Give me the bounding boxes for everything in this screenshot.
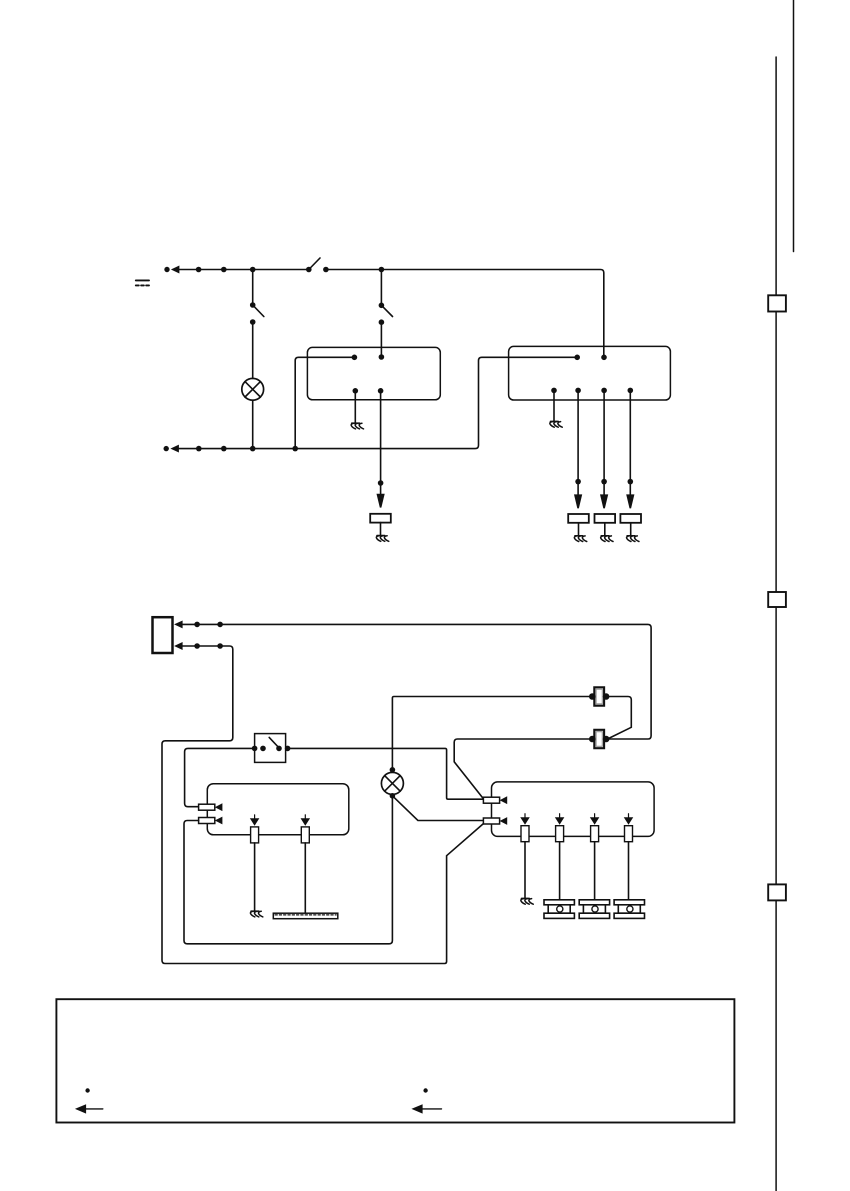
- pin dot A1: [352, 355, 358, 361]
- section mark 2: [768, 592, 786, 607]
- wire top bus left: [199, 269, 309, 271]
- pin dot B5: [601, 388, 607, 394]
- wire A4 down: [380, 391, 382, 483]
- legend symbol 1 arrow: [77, 1105, 103, 1112]
- connector plug B4: [568, 514, 589, 523]
- ground below D-R1: [521, 842, 533, 905]
- pin dot B2: [601, 355, 607, 361]
- module D box: [492, 782, 655, 837]
- connector plug B6: [620, 514, 641, 523]
- wire lamp bottom to module D connector 2: [392, 796, 483, 821]
- node dot: [217, 643, 223, 649]
- arrow down A4: [378, 483, 384, 508]
- node dot: [221, 267, 227, 273]
- arrow down B5: [601, 482, 607, 509]
- node dot: [378, 480, 384, 486]
- pin dot B1: [574, 355, 580, 361]
- pin dot B6: [628, 388, 634, 394]
- pin dot A2: [379, 354, 385, 360]
- ground below C-R1: [250, 843, 262, 917]
- pin dot A4: [378, 388, 384, 394]
- switch S2 lamp branch: [250, 270, 264, 325]
- wire B5 down: [603, 390, 605, 481]
- actuator 1: [544, 900, 574, 919]
- legend symbol 1 dot: [85, 1088, 89, 1092]
- page rule right top: [793, 0, 795, 252]
- wire switch right to module D connector: [288, 748, 484, 799]
- wire fuse F2 left to module D connector 1: [454, 739, 592, 799]
- node dot top bus col2: [379, 267, 385, 273]
- actuator 2: [579, 900, 609, 919]
- ground below plug B5: [601, 523, 613, 542]
- wire into module A: [380, 322, 382, 357]
- module C connector pin 1: [199, 804, 222, 810]
- relay switch box: [255, 734, 286, 763]
- node dot junction lamp column: [250, 267, 256, 273]
- wire B4 down: [577, 390, 579, 481]
- wire C-R2 to heater element: [304, 843, 306, 913]
- indicator lamp L2: [381, 772, 403, 794]
- node dot: [575, 479, 581, 485]
- ground B3: [550, 390, 562, 427]
- pin dot B4: [575, 388, 581, 394]
- wire D-R4 to actuator 3: [628, 842, 630, 900]
- module D connector pin 1: [483, 797, 506, 803]
- wire to lamp: [252, 322, 254, 378]
- module C box: [207, 784, 348, 835]
- node dot: [221, 446, 227, 452]
- wire B6 down: [629, 390, 631, 481]
- wire feed line 1 to fuse F2: [197, 624, 651, 739]
- wire connector C2 loop to lamp: [184, 796, 392, 944]
- feed line 2 arrow: [176, 643, 197, 648]
- lamp L1: [242, 378, 264, 400]
- node dot: [196, 446, 202, 452]
- top bus left arrow: [173, 267, 199, 272]
- arrow down B4: [575, 482, 581, 509]
- arrow down B6: [627, 482, 633, 509]
- ground below plug B4: [574, 523, 586, 542]
- page rule right main: [775, 57, 777, 1191]
- ground below plug B6: [627, 523, 639, 542]
- node dot: [196, 267, 202, 273]
- section mark 1: [768, 295, 786, 311]
- actuator 3: [614, 900, 644, 919]
- wire D-R3 to actuator 2: [594, 842, 596, 900]
- wire A1 to bottom bus: [295, 357, 354, 448]
- wire top bus right to module B: [326, 270, 604, 358]
- resistor C-R2: [301, 815, 309, 843]
- wire D-R2 to actuator 1: [559, 842, 561, 900]
- module D connector pin 2: [483, 818, 506, 824]
- pin dot A3: [353, 388, 359, 394]
- bottom bus left arrow: [172, 446, 199, 451]
- connector plug A4: [370, 514, 391, 523]
- node dot: [601, 479, 607, 485]
- module B box: [509, 346, 671, 400]
- wire lamp to bottom bus: [252, 400, 254, 448]
- pin dot B3: [551, 388, 557, 394]
- node dot: [194, 622, 200, 628]
- node dot lamp top: [390, 767, 396, 773]
- ground below plug A4: [376, 523, 388, 542]
- legend box: [56, 999, 734, 1122]
- relay switch contacts: [252, 737, 291, 751]
- wire fuse F1 right to fuse F2: [606, 697, 631, 740]
- switch S3 module A branch: [379, 270, 393, 326]
- fuse F1: [590, 687, 609, 705]
- node dot: [194, 643, 200, 649]
- feed line 1 arrow: [176, 622, 197, 627]
- node dot lamp bottom: [390, 793, 396, 799]
- module A box: [307, 347, 440, 399]
- resistor D-R1: [521, 814, 529, 842]
- switch S1: [306, 258, 329, 272]
- DC symbol: [136, 280, 149, 285]
- wire switch left to connector C1: [185, 748, 255, 806]
- node dot: [628, 479, 634, 485]
- connector plug B5: [595, 514, 616, 523]
- bottom bus terminal dot: [164, 446, 169, 451]
- resistor D-R2: [556, 814, 564, 842]
- legend symbol 2 arrow: [414, 1105, 442, 1112]
- resistor D-R4: [625, 814, 633, 842]
- wire lamp top to fuse F1: [392, 697, 591, 770]
- heater element: [273, 913, 338, 919]
- node dot lamp bottom: [250, 446, 256, 452]
- fuse F2: [590, 730, 609, 748]
- wire feed line 2 long loop: [162, 646, 483, 964]
- top bus terminal dot: [164, 267, 169, 272]
- legend symbol 2 dot: [423, 1088, 427, 1092]
- ground A3: [351, 391, 363, 429]
- resistor C-R1: [251, 815, 259, 843]
- wire bottom bus: [199, 357, 577, 448]
- node dot: [292, 446, 298, 452]
- module C connector pin 2: [199, 818, 222, 824]
- section mark 3: [768, 884, 786, 900]
- node dot: [217, 622, 223, 628]
- resistor D-R3: [591, 814, 599, 842]
- battery connector: [153, 617, 173, 653]
